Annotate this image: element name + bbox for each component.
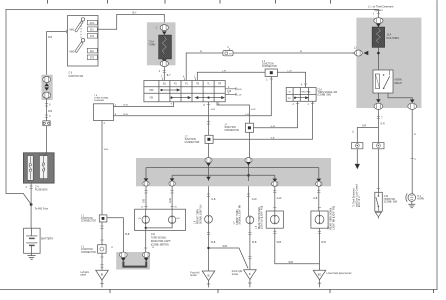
note w/ Theft Deterrent System [368, 5, 394, 12]
svg-text:CONNECTOR: CONNECTOR [262, 66, 277, 68]
svg-text:G-B: G-B [313, 198, 318, 200]
arrow left into connector [364, 51, 369, 55]
svg-text:IG1: IG1 [90, 29, 94, 31]
arrow into ground link [121, 258, 126, 261]
svg-text:13: 13 [152, 247, 155, 249]
svg-text:1 6: 1 6 [195, 220, 197, 224]
wire rear LH to ground run [275, 228, 320, 264]
shaded option band [136, 158, 331, 186]
wire front LH lamp to ground [208, 223, 210, 271]
wire J7b down to shade band [208, 143, 210, 158]
svg-text:INDICATOR LIGHT: INDICATOR LIGHT [151, 240, 171, 243]
wire hazard feed into relay box [352, 52, 362, 54]
svg-text:1: 1 [414, 159, 416, 161]
wire hazard TL down [208, 102, 210, 136]
label rear turn signal LH rotated [256, 206, 264, 229]
wire to fusible link [46, 98, 48, 121]
svg-text:G-B: G-B [271, 137, 275, 139]
svg-text:26: 26 [175, 207, 178, 209]
connector above TURN fuse [160, 25, 168, 31]
wire flasher L to hazard switch [114, 102, 174, 107]
svg-text:W-B: W-B [321, 242, 326, 244]
connector meter ground block [116, 252, 150, 270]
svg-text:1: 1 [308, 104, 310, 106]
label C11 TURN SIGNAL INDICATOR LIGHT [151, 234, 171, 247]
svg-text:panel: panel [81, 275, 87, 277]
wire meter internal ground join [146, 223, 172, 228]
junction connector J7a [245, 123, 253, 132]
wire rear RH to ground [319, 228, 321, 270]
ground IF front right fender [244, 270, 257, 288]
svg-text:TURN SIGNAL: TURN SIGNAL [94, 96, 109, 99]
wire lever link dashed [80, 23, 82, 39]
drop to meter RH indicator [169, 175, 175, 209]
battery B1 [24, 228, 40, 253]
lamp front turn signal LH [205, 186, 213, 223]
svg-text:8: 8 [204, 105, 206, 107]
contact bar hazard ON left [171, 97, 191, 99]
svg-text:2: 2 [293, 104, 295, 106]
svg-text:B-R: B-R [48, 37, 52, 39]
fuse TURN 7.5A [159, 35, 172, 59]
lamp rear combination RH [311, 211, 328, 228]
label C10 HORN SW [384, 196, 398, 203]
svg-text:ON: ON [150, 98, 154, 100]
svg-text:TURN SIGNAL SW: TURN SIGNAL SW [318, 91, 339, 94]
junction connector J1 upper [99, 215, 107, 222]
svg-text:Lower back panel center: Lower back panel center [327, 272, 352, 275]
border right [436, 1, 438, 290]
lamp turn indicator LH [142, 216, 149, 223]
svg-text:W-B: W-B [211, 242, 216, 244]
wire ground crossover to RH side [209, 248, 249, 268]
lamp rear combination LH [266, 211, 283, 228]
svg-text:4: 4 [301, 84, 303, 86]
pin AM1 bracket [65, 30, 67, 33]
svg-text:CONNECTOR: CONNECTOR [81, 252, 96, 254]
label C14 TURN SIGNAL SW [318, 89, 339, 96]
ignition switch SW1 [47, 16, 99, 75]
wire fuse to relay [377, 47, 379, 70]
tick top page markers [48, 0, 331, 3]
svg-text:CONNECTOR: CONNECTOR [224, 130, 239, 132]
svg-text:ST1: ST1 [90, 36, 95, 38]
contact bar turn LH [294, 97, 308, 99]
terminal IG1 [87, 27, 97, 32]
svg-text:2: 2 [159, 71, 161, 73]
connector above HAZ fuse [374, 18, 383, 24]
svg-text:W-B: W-B [223, 246, 228, 248]
arrow down [44, 83, 49, 86]
svg-text:1: 1 [373, 14, 375, 16]
connector symbol upper [43, 76, 51, 82]
svg-text:IG2: IG2 [90, 51, 94, 53]
label 2-4 FUSE BOX [35, 185, 48, 191]
fuse HAZ-HORN 15A assembly [372, 10, 399, 71]
connector instrument panel on hazard feed [223, 47, 233, 56]
svg-text:G-B: G-B [144, 198, 146, 203]
svg-text:B-Y: B-Y [133, 11, 137, 14]
connector inline horn switch wire [373, 143, 384, 149]
svg-text:3: 3 [104, 123, 106, 125]
svg-text:G-W: G-W [251, 109, 256, 111]
wire J7a down to shade band [248, 132, 250, 158]
wire top bus into fuse [377, 10, 379, 19]
node RH bus junction [247, 174, 250, 177]
wire J1 to ground [101, 253, 103, 270]
wire hazard B2 feed from HAZ-HORN fuse [186, 53, 362, 81]
svg-text:FUSE BOX: FUSE BOX [35, 189, 48, 192]
connector below TURN fuse [160, 61, 168, 67]
svg-text:G-R: G-R [380, 124, 385, 126]
fuse HAZ-HORN 15A [372, 27, 384, 47]
stub hazard switch B4 [225, 93, 236, 96]
svg-text:G-W: G-W [277, 198, 283, 200]
channel fuse AM [40, 156, 48, 179]
svg-text:OFF: OFF [149, 90, 154, 92]
ground IB left kick panel [96, 270, 109, 287]
channel circuit breaker [27, 156, 33, 181]
svg-text:G: G [300, 51, 302, 53]
combination meter C11 [135, 209, 186, 230]
junction connector J7b [205, 135, 213, 143]
ground battery earth [27, 253, 35, 259]
wire flasher B to junction [114, 76, 272, 115]
svg-text:BO: BO [318, 274, 322, 277]
svg-text:C 6: C 6 [69, 72, 73, 74]
bus upper LH lamps [146, 167, 319, 169]
connector pass-through on RH wire [245, 158, 252, 163]
svg-text:ST2: ST2 [90, 58, 95, 60]
svg-text:G-B: G-B [211, 109, 215, 111]
fuse box 2-4 [23, 153, 54, 183]
lever ignition contact 1 [75, 21, 83, 32]
svg-text:7: 7 [381, 117, 383, 119]
svg-text:6: 6 [49, 105, 51, 107]
svg-text:G-R: G-R [362, 126, 367, 128]
border bottom [0, 289, 437, 291]
wire hazard TR to J7a [217, 102, 249, 123]
terminal ST2 [87, 55, 97, 60]
turn signal flasher U1 [94, 104, 114, 121]
svg-text:CONNECTOR: CONNECTOR [81, 221, 96, 223]
svg-text:W-B: W-B [104, 149, 109, 151]
svg-text:AM2: AM2 [69, 51, 74, 54]
tick bottom page markers [110, 290, 434, 293]
wire left battery feed along page edge [6, 10, 31, 205]
terminal ST1 [87, 34, 97, 39]
svg-text:SIGNAL LIGHT LH: SIGNAL LIGHT LH [199, 204, 202, 224]
svg-text:B-Y: B-Y [167, 75, 171, 77]
node hazard tap [377, 52, 380, 55]
label front turn signal light LH rotated [195, 204, 203, 224]
svg-text:G-W: G-W [252, 199, 258, 201]
hazard switch C13 contact table [144, 81, 225, 102]
wire turn switch TL to J7a [254, 101, 298, 127]
svg-text:G-W: G-W [170, 197, 172, 203]
svg-text:TB: TB [196, 84, 199, 86]
svg-text:TURN SIGNAL: TURN SIGNAL [151, 236, 167, 239]
svg-text:[COMB. METER]: [COMB. METER] [151, 244, 169, 246]
svg-text:CONNECTOR: CONNECTOR [185, 142, 200, 144]
label to theft deterrent ECU rotated [353, 184, 362, 207]
junction connector block J/C left column [42, 75, 53, 100]
wire flasher E ground [101, 121, 103, 215]
wire ground link thick [123, 261, 146, 266]
shaded relay box area [356, 18, 421, 108]
svg-text:1: 1 [266, 80, 268, 82]
label rear turn signal RH rotated [328, 206, 336, 230]
svg-text:G: G [414, 134, 416, 136]
svg-text:B-W: B-W [237, 89, 242, 91]
svg-text:LIGHT LH [LIGHT FAI]: LIGHT LH [LIGHT FAI] [261, 206, 264, 229]
ground BO lower back panel [313, 270, 326, 287]
wire TURN fuse to hazard switch [163, 67, 166, 81]
connector symbol lower [43, 92, 51, 98]
lamp turn indicator RH [168, 216, 175, 223]
svg-text:RELAY: RELAY [395, 82, 403, 85]
svg-text:REAR TURN SIGNAL: REAR TURN SIGNAL [258, 206, 261, 229]
drop to rear LH lamp [272, 175, 278, 211]
pin ticks hazard switch top [163, 78, 196, 81]
svg-text:IB: IB [101, 274, 104, 277]
svg-text:Left kick: Left kick [81, 271, 90, 274]
svg-text:G: G [200, 51, 202, 53]
svg-text:TR: TR [218, 84, 221, 86]
wire turn switch TR to J7b [213, 101, 312, 139]
svg-text:FRONT TURN: FRONT TURN [198, 209, 200, 224]
svg-text:G-B: G-B [211, 199, 216, 201]
svg-text:W-B: W-B [125, 234, 130, 236]
drop to rear RH lamp [316, 168, 322, 211]
svg-text:1 7: 1 7 [234, 221, 236, 225]
turn signal switch C14 contact table [286, 88, 316, 102]
svg-text:fender: fender [232, 273, 239, 276]
svg-text:FRONT TURN: FRONT TURN [237, 209, 239, 224]
lever ignition contact 2 [75, 42, 83, 53]
wire RH through band [246, 162, 251, 181]
fuse TURN 7.5A assembly [147, 22, 176, 66]
wire top power bus [6, 9, 378, 11]
svg-text:L-W: L-W [237, 94, 242, 96]
junction connector J4 [265, 69, 277, 76]
wire AM1 feed [47, 32, 67, 75]
arrow out of fuse [162, 59, 167, 62]
svg-text:IGNITION SW: IGNITION SW [69, 76, 84, 78]
ground horn switch [375, 212, 381, 218]
connector inline theft branch [352, 143, 363, 149]
svg-text:NEUTRAL: NEUTRAL [302, 90, 312, 93]
bus lower RH lamps [172, 174, 275, 176]
svg-text:AM1: AM1 [69, 29, 74, 32]
wire into fuse box [46, 126, 48, 153]
label front turn signal light RH rotated [234, 205, 242, 225]
svg-text:1 8: 1 8 [256, 225, 258, 229]
svg-text:C13: C13 [227, 91, 232, 93]
wire fuse box to battery [30, 183, 32, 228]
svg-text:W-B: W-B [277, 242, 282, 244]
svg-text:LIGHT RH [LIGHT FAI]: LIGHT RH [LIGHT FAI] [333, 206, 336, 230]
svg-text:ECU <4 1>: ECU <4 1> [358, 195, 361, 207]
connector hazard feed exit [355, 50, 369, 56]
svg-text:HORN: HORN [417, 198, 424, 200]
wire LH through band [206, 163, 211, 181]
ground horn earth [408, 201, 415, 207]
wire IG1 to TURN fuse [97, 14, 164, 29]
wire relay to horn switch [374, 93, 383, 143]
wire J1 branch to meter ground connector [107, 218, 124, 253]
arrow into fuse [162, 31, 167, 35]
svg-text:5: 5 [49, 116, 51, 118]
svg-text:SIGNAL LIGHT RH: SIGNAL LIGHT RH [239, 205, 242, 225]
svg-text:(COMB. SW): (COMB. SW) [384, 201, 398, 203]
wire entry jog [44, 153, 47, 156]
svg-text:W-B: W-B [289, 262, 294, 264]
svg-text:and Door Lock Control: and Door Lock Control [355, 184, 358, 207]
svg-text:fender: fender [190, 274, 197, 277]
node battery feed junction [30, 203, 33, 206]
svg-text:13: 13 [141, 207, 144, 209]
wire branch to theft deterrent [357, 128, 378, 143]
svg-text:( ): ( ) [352, 132, 354, 134]
wire J1 column [101, 222, 103, 245]
wire meter ground to connector [145, 230, 147, 252]
contact bar hazard OFF [161, 89, 180, 91]
svg-text:1J: 1J [354, 48, 356, 50]
svg-text:REAR TURN SIGNAL: REAR TURN SIGNAL [330, 206, 333, 229]
relay horn K1 [373, 70, 393, 93]
svg-text:IE: IE [207, 274, 210, 277]
svg-text:Front left: Front left [190, 271, 199, 274]
connector pass-through on LH wire [205, 158, 212, 163]
svg-text:HAZ-HORN: HAZ-HORN [386, 37, 399, 40]
terminal ACC [87, 20, 97, 25]
junction connector J1 lower [98, 245, 107, 254]
svg-text:2: 2 [26, 187, 28, 189]
svg-text:7: 7 [171, 104, 173, 106]
fusible link F1 [43, 121, 50, 126]
svg-text:W-B: W-B [252, 242, 257, 244]
horn H4 [406, 193, 416, 201]
svg-text:Front right: Front right [232, 270, 243, 273]
wire and arrow to theft deterrent ECU [355, 149, 360, 170]
svg-text:C11: C11 [151, 234, 156, 236]
svg-text:4: 4 [227, 47, 229, 49]
wire J4 to turn signal switch [277, 72, 305, 87]
svg-text:B-R: B-R [48, 111, 52, 113]
svg-text:(COMB. SW): (COMB. SW) [318, 95, 332, 97]
svg-text:ACC: ACC [90, 22, 95, 25]
pin ticks left column [45, 104, 48, 118]
svg-text:12: 12 [111, 247, 114, 249]
svg-text:BATTERY: BATTERY [41, 237, 53, 241]
wire hazard TB to J4 [197, 72, 265, 80]
contact bar hazard ON right [195, 97, 224, 99]
svg-text:To Theft Deterrent: To Theft Deterrent [353, 188, 356, 207]
node front ground branch [207, 247, 209, 249]
lamp front turn signal RH [246, 186, 254, 224]
wire front RH lamp to ground [249, 224, 251, 270]
drop to meter LH indicator [143, 168, 149, 210]
arrow into fuse [376, 24, 381, 28]
stub hazard switch B3 [225, 87, 236, 90]
arrow down [44, 87, 49, 90]
terminal IG2 [87, 48, 97, 53]
svg-text:FLASHER: FLASHER [94, 99, 105, 102]
ground IE front left fender [202, 271, 215, 287]
svg-text:TURN: TURN [148, 44, 155, 47]
wire relay to horn [388, 93, 417, 194]
switch horn C10 [375, 149, 383, 212]
svg-text:To AM2 Fuse: To AM2 Fuse [35, 207, 49, 210]
